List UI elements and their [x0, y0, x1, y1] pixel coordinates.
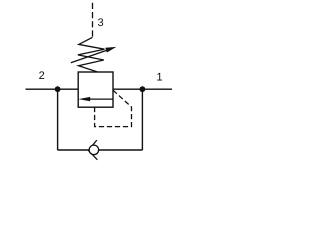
label 3 — [98, 18, 103, 26]
junction node left — [55, 86, 61, 92]
pilot port 3 dashed line — [92, 3, 94, 38]
adjustment arrow shaft — [71, 50, 108, 63]
port 2 wire (left) — [26, 88, 79, 90]
valve body U1 — [78, 72, 113, 107]
internal flow arrow head — [79, 97, 91, 101]
junction node right — [140, 86, 146, 92]
pilot feedback dashed wire — [95, 90, 132, 126]
adjustment arrow head — [105, 47, 116, 53]
check valve ball — [89, 145, 99, 155]
internal flow arrow shaft — [90, 98, 114, 100]
label 1 — [157, 73, 162, 81]
spring (adjustable) — [78, 37, 105, 72]
bypass wire bottom horizontal — [58, 149, 143, 151]
label 2 — [39, 71, 44, 79]
port 1 wire (right) — [113, 88, 172, 90]
bypass wire right vertical — [141, 89, 143, 150]
bypass wire left vertical — [57, 89, 59, 150]
check valve seat — [88, 140, 97, 160]
